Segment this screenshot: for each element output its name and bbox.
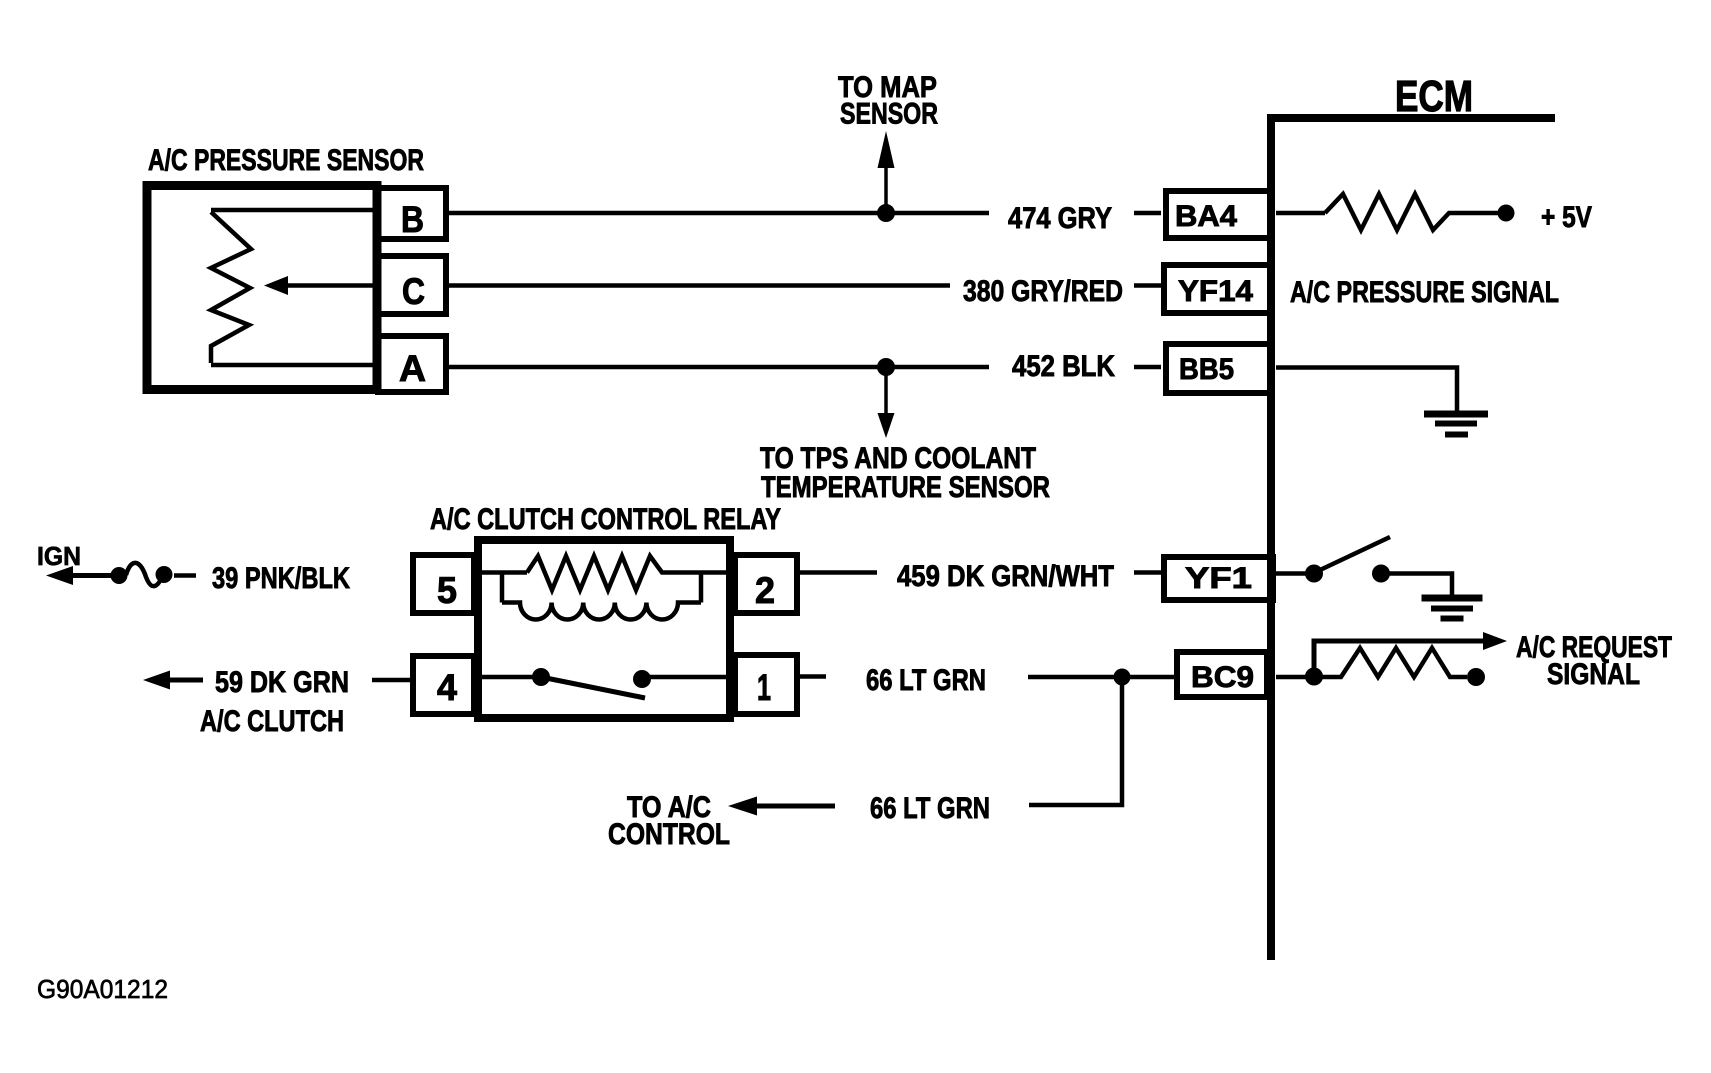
svg-text:G90A01212: G90A01212	[37, 974, 168, 1004]
svg-text:380 GRY/RED: 380 GRY/RED	[963, 275, 1123, 308]
svg-text:59 DK GRN: 59 DK GRN	[215, 666, 349, 699]
svg-text:459 DK GRN/WHT: 459 DK GRN/WHT	[897, 560, 1114, 593]
svg-text:YF14: YF14	[1178, 275, 1253, 308]
svg-text:C: C	[402, 271, 425, 312]
svg-text:IGN: IGN	[37, 541, 81, 571]
svg-text:BC9: BC9	[1191, 661, 1254, 694]
svg-text:B: B	[401, 199, 424, 240]
svg-text:+ 5V: + 5V	[1541, 201, 1592, 234]
svg-text:SIGNAL: SIGNAL	[1547, 658, 1640, 691]
svg-text:1: 1	[757, 667, 771, 708]
svg-text:ECM: ECM	[1395, 72, 1473, 121]
svg-text:5: 5	[437, 570, 457, 611]
svg-text:2: 2	[755, 570, 775, 611]
svg-text:39 PNK/BLK: 39 PNK/BLK	[212, 562, 350, 595]
svg-text:BB5: BB5	[1179, 353, 1234, 386]
svg-text:A/C PRESSURE SIGNAL: A/C PRESSURE SIGNAL	[1290, 276, 1559, 309]
svg-text:A/C PRESSURE SENSOR: A/C PRESSURE SENSOR	[148, 144, 424, 177]
svg-text:474 GRY: 474 GRY	[1008, 202, 1112, 235]
svg-text:TEMPERATURE SENSOR: TEMPERATURE SENSOR	[761, 471, 1050, 504]
svg-text:A: A	[399, 348, 426, 389]
svg-text:A/C CLUTCH: A/C CLUTCH	[200, 705, 344, 738]
svg-text:4: 4	[437, 667, 457, 708]
svg-text:66 LT GRN: 66 LT GRN	[870, 792, 990, 825]
svg-text:CONTROL: CONTROL	[608, 818, 730, 851]
svg-text:BA4: BA4	[1175, 200, 1237, 233]
svg-text:452 BLK: 452 BLK	[1012, 350, 1115, 383]
svg-text:66 LT GRN: 66 LT GRN	[866, 664, 986, 697]
svg-text:SENSOR: SENSOR	[840, 98, 938, 131]
svg-text:YF1: YF1	[1185, 562, 1252, 595]
svg-text:A/C CLUTCH CONTROL RELAY: A/C CLUTCH CONTROL RELAY	[430, 503, 781, 536]
